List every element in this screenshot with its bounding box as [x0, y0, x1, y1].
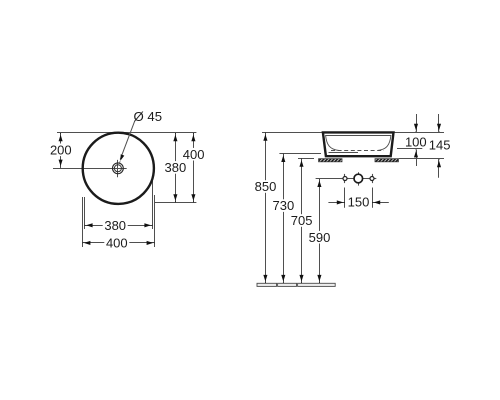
- svg-text:145: 145: [429, 138, 451, 153]
- svg-text:400: 400: [106, 236, 128, 251]
- svg-text:850: 850: [255, 179, 277, 194]
- svg-text:150: 150: [348, 195, 370, 210]
- svg-text:590: 590: [309, 230, 331, 245]
- svg-text:730: 730: [273, 198, 295, 213]
- svg-text:380: 380: [104, 218, 126, 233]
- svg-text:705: 705: [291, 213, 313, 228]
- svg-text:380: 380: [165, 160, 187, 175]
- svg-text:100: 100: [405, 135, 427, 150]
- svg-text:200: 200: [50, 142, 72, 157]
- svg-text:400: 400: [183, 147, 205, 162]
- svg-text:Ø 45: Ø 45: [134, 109, 163, 124]
